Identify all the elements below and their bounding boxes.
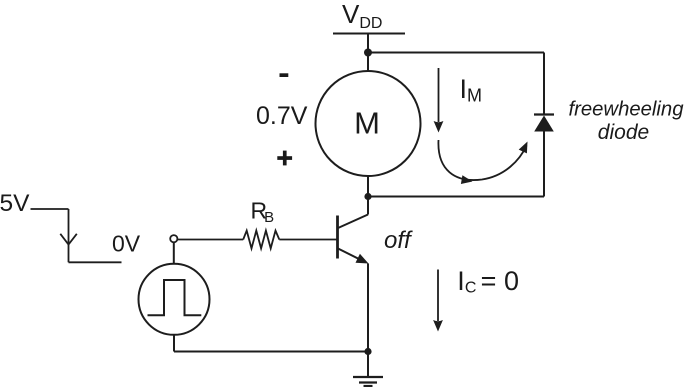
- transistor Q1 emitter arrowhead: [356, 254, 369, 264]
- wire junction to ground: [367, 352, 369, 378]
- motor M1 circle: [316, 71, 421, 176]
- node junction emitter bottom: [364, 348, 371, 355]
- wire emitter to bottom junction: [367, 264, 369, 352]
- node junction top: [364, 49, 372, 57]
- label minus: [280, 73, 289, 77]
- current arrow I_C: [437, 270, 439, 322]
- svg-text:off: off: [384, 227, 413, 254]
- svg-text:M: M: [354, 106, 380, 141]
- power rail V_DD: [333, 33, 405, 35]
- current arrow I_M: [438, 68, 440, 122]
- label plus: [277, 151, 292, 166]
- node input open circle: [170, 235, 177, 242]
- svg-text:VDD: VDD: [342, 0, 382, 32]
- diode D1 freewheeling cathode bar: [534, 113, 554, 115]
- ground symbol: [353, 377, 383, 386]
- freewheeling current curved arrow: [438, 140, 526, 180]
- input step low level: [69, 261, 122, 263]
- wire right side lower: [543, 132, 545, 197]
- wire input node to pulse source: [173, 242, 175, 263]
- input step waveform high level: [31, 208, 69, 210]
- svg-text:5V: 5V: [0, 190, 30, 217]
- wire junction to collector: [367, 197, 369, 215]
- wire motor bottom to junction: [367, 176, 369, 197]
- input step falling edge: [68, 209, 70, 262]
- wire resistor to base: [279, 239, 337, 241]
- wire V_DD to motor top: [367, 34, 369, 72]
- transistor Q1 emitter lead: [338, 249, 361, 261]
- wire bottom rail motor to diode: [368, 196, 544, 198]
- diode D1 triangle: [534, 116, 554, 132]
- wire bottom rail to emitter: [174, 351, 368, 353]
- pulse source V1 circle: [139, 264, 210, 335]
- svg-text:0.7V: 0.7V: [256, 102, 308, 130]
- input step arrow chevron: [60, 234, 77, 245]
- node junction motor bottom: [364, 193, 371, 200]
- resistor R_B zigzag: [243, 231, 279, 249]
- svg-text:RB: RB: [251, 198, 275, 227]
- transistor Q1 collector lead: [338, 215, 368, 229]
- wire top rail to diode: [368, 52, 544, 54]
- svg-text:0V: 0V: [112, 231, 141, 257]
- svg-text:IM: IM: [460, 74, 483, 106]
- svg-text:freewheeling: freewheeling: [568, 99, 684, 121]
- wire right side upper: [543, 53, 545, 115]
- wire pulse source to bottom rail: [173, 335, 175, 352]
- svg-text:IC=0: IC=0: [457, 266, 519, 297]
- transistor Q1 base bar: [336, 216, 339, 259]
- pulse source V1 waveform: [148, 280, 202, 315]
- svg-text:diode: diode: [598, 121, 649, 144]
- wire input node to resistor: [177, 239, 243, 241]
